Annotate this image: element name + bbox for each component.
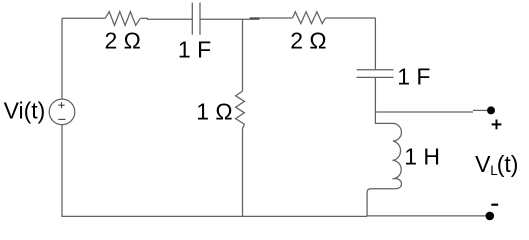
wire top-left horizontal segment bbox=[62, 17, 105, 19]
wire resistor R2 to right branch corner bbox=[325, 17, 375, 19]
terminal dot plus bbox=[487, 106, 495, 114]
wire top-right horizontal to resistor R2 bbox=[250, 17, 293, 19]
wire step to capacitor C1 bbox=[147, 18, 192, 20]
capacitor C2 plate top bbox=[357, 69, 394, 71]
capacitor C1 plate right bbox=[199, 3, 201, 35]
wire capacitor C1 to node A bbox=[200, 18, 260, 20]
wire plus terminal end segment bbox=[473, 109, 488, 111]
plus terminal mark bbox=[492, 120, 502, 130]
svg-text:V: V bbox=[475, 151, 491, 177]
wire bottom left horizontal bbox=[61, 215, 367, 217]
resistor R1 2-ohm zigzag bbox=[105, 12, 140, 26]
voltage source plus mark bbox=[58, 102, 64, 108]
svg-text:1 F: 1 F bbox=[178, 36, 211, 62]
svg-text:(t): (t) bbox=[497, 151, 519, 177]
terminal dot minus bbox=[486, 212, 495, 221]
voltage source Vi circle bbox=[49, 99, 75, 125]
resistor R2 2-ohm zigzag bbox=[293, 12, 326, 24]
capacitor C1 plate left bbox=[191, 3, 193, 35]
minus terminal mark bbox=[491, 204, 498, 206]
wire capacitor C2 to inductor bbox=[374, 78, 376, 124]
svg-text:1 H: 1 H bbox=[404, 143, 440, 169]
wire resistor R1 to step bbox=[140, 17, 148, 19]
voltage source minus mark bbox=[58, 118, 65, 120]
wire left branch vertical lower bbox=[61, 125, 63, 217]
resistor R3 1-ohm vertical zigzag bbox=[236, 91, 245, 129]
wire overlap dark segment at node A bbox=[250, 17, 260, 19]
wire middle branch vertical lower bbox=[242, 129, 244, 217]
wire left branch vertical upper bbox=[61, 18, 63, 99]
wire bottom right horizontal bbox=[367, 215, 491, 217]
svg-text:1 F: 1 F bbox=[397, 64, 430, 90]
wire to plus terminal bbox=[376, 111, 473, 113]
wire middle branch vertical upper bbox=[242, 19, 244, 91]
svg-text:2 Ω: 2 Ω bbox=[290, 27, 326, 53]
inductor L1 coil bbox=[367, 123, 401, 216]
svg-text:Vi(t): Vi(t) bbox=[4, 97, 46, 123]
capacitor C2 plate bottom bbox=[357, 76, 394, 78]
svg-text:1 Ω: 1 Ω bbox=[196, 98, 232, 124]
svg-text:2 Ω: 2 Ω bbox=[105, 27, 141, 53]
wire right branch vertical to capacitor C2 bbox=[374, 18, 376, 70]
